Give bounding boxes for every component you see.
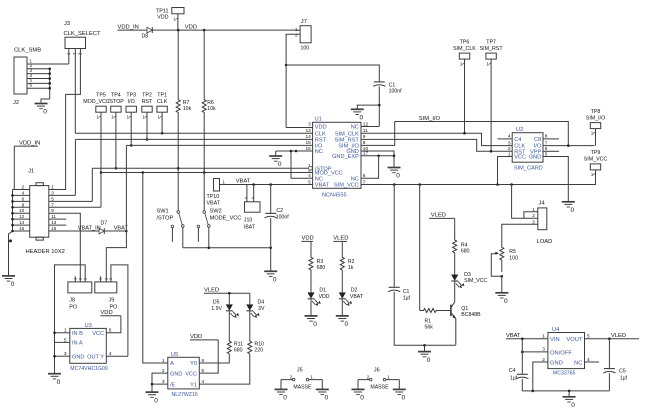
wire U4 GND drop (533, 362, 548, 391)
junction dot R7 on /STOP (177, 167, 180, 170)
wire J8 pin3 loop to U3 (55, 265, 86, 373)
wire U4 NC stub (585, 361, 600, 363)
svg-text:HEADER 10X2: HEADER 10X2 (26, 249, 65, 255)
svg-text:11: 11 (51, 214, 56, 219)
svg-text:CLK: CLK (315, 131, 326, 137)
svg-text:2: 2 (532, 213, 535, 218)
svg-text:J9: J9 (109, 297, 115, 303)
svg-text:0: 0 (396, 173, 400, 180)
wire SIM_CLK link (361, 133, 512, 145)
svg-text:TP7: TP7 (486, 39, 496, 45)
junction dot U5 gnd tie (151, 383, 154, 386)
wire U5 Y0 to R11 (199, 354, 229, 363)
svg-text:0: 0 (402, 395, 406, 402)
wire J2 pins 2-6 to junction bus (27, 69, 50, 103)
wire TP9 drop (591, 170, 596, 185)
svg-text:TP10: TP10 (207, 194, 220, 200)
svg-text:VLED: VLED (333, 236, 348, 242)
svg-text:GND: GND (529, 155, 541, 161)
connector J7 (295, 19, 311, 52)
capacitor C7 (C1 1uf) (388, 185, 411, 302)
svg-text:SIM_VCC: SIM_VCC (584, 157, 608, 163)
svg-text:SIM_VCC: SIM_VCC (334, 183, 359, 189)
svg-text:1: 1 (51, 185, 54, 190)
svg-text:SIM_CLK: SIM_CLK (335, 131, 359, 137)
svg-text:14: 14 (19, 220, 25, 225)
svg-text:0: 0 (345, 321, 349, 328)
svg-text:5: 5 (51, 196, 54, 201)
svg-text:TP1: TP1 (157, 93, 167, 99)
net label VDD U5 (190, 334, 218, 340)
svg-text:NC: NC (574, 360, 582, 366)
svg-text:VBAT: VBAT (207, 200, 221, 206)
ground below U4 (563, 397, 576, 409)
junction dot SIM_VCC U2VCC (496, 183, 499, 186)
transistor Q1 BC848B (451, 305, 481, 345)
svg-text:1: 1 (162, 358, 165, 364)
wire VDD to R3 (310, 241, 312, 256)
svg-text:VIN: VIN (550, 337, 560, 343)
testpoint TP8 SIM_I/O (586, 109, 605, 129)
svg-text:J2: J2 (13, 100, 19, 106)
wire TP8 drop (591, 129, 596, 146)
ground below D1 (305, 316, 318, 328)
svg-text:3: 3 (532, 219, 535, 224)
wire U3 INA stub (55, 341, 70, 343)
svg-text:IN B: IN B (72, 331, 83, 337)
wire TP5 drop (96, 112, 101, 172)
junction dot VBAT tie (125, 230, 128, 233)
junction dot TP2 on RST (146, 138, 149, 141)
wire U5 A riser (143, 173, 168, 364)
junction blob J1 gnd (9, 239, 12, 242)
wire J8 pin1 stub (74, 276, 76, 282)
svg-text:100: 100 (301, 46, 310, 52)
net label VDD leds (302, 236, 314, 242)
wire U2 pin4 stub (498, 138, 513, 140)
LED D5 1.9V (211, 299, 239, 317)
svg-text:13: 13 (305, 128, 311, 134)
wire TP1 drop (158, 112, 163, 133)
svg-text:TP6: TP6 (460, 39, 470, 45)
switch SW2 MODE_VCC (197, 168, 241, 248)
svg-text:100nf: 100nf (389, 89, 403, 95)
junction dot TP3 on I/O (130, 144, 133, 147)
junction dot SW2 bus (208, 247, 211, 250)
net label VBAT left (114, 226, 129, 232)
svg-text:0: 0 (504, 298, 508, 305)
svg-text:D8: D8 (142, 34, 149, 40)
svg-text:U4: U4 (552, 327, 560, 333)
junction dot TP6 on SIM_CLK (463, 132, 466, 135)
wire U1 pin8 SIM_I/O riser (361, 122, 395, 146)
wire J1 left tie (11, 190, 14, 233)
svg-text:IN A: IN A (72, 341, 83, 347)
net label VDD rail (185, 24, 197, 30)
svg-text:VBAT: VBAT (236, 179, 251, 185)
wire U3 INB stub (55, 332, 70, 334)
wire J7 pin2 loop to VDD node (286, 34, 300, 127)
connector J8 PO (68, 277, 92, 310)
wire U1 pin10 GND to ground (361, 151, 394, 167)
svg-text:TP11: TP11 (156, 8, 168, 14)
wire J1 left to ground (9, 231, 13, 275)
junction dot gnd rail (423, 344, 426, 347)
junction dot SIM_VCC J4 (510, 183, 513, 186)
svg-text:3: 3 (308, 121, 311, 127)
svg-text:ON/OFF: ON/OFF (550, 350, 572, 356)
svg-text:16: 16 (19, 226, 25, 231)
svg-text:10k: 10k (207, 106, 216, 112)
wire SIM_RST link (361, 139, 512, 151)
svg-text:NC: NC (315, 149, 323, 155)
junction dots J2 pins (48, 68, 51, 90)
wire U2 pin6 stub (543, 150, 559, 152)
svg-text:GND: GND (72, 355, 84, 361)
wire U4 gnd stub (568, 391, 570, 396)
LED D3 SIM_VCC (451, 272, 487, 288)
connector J9 PO (95, 277, 117, 310)
svg-text:0: 0 (278, 161, 282, 168)
resistor R7 10k (176, 30, 191, 168)
wire RST bus (75, 139, 312, 195)
svg-text:1: 1 (310, 375, 313, 380)
svg-text:U5: U5 (171, 352, 178, 358)
svg-text:6: 6 (22, 196, 25, 201)
svg-text:D1: D1 (319, 287, 326, 293)
svg-text:SW1: SW1 (157, 208, 169, 214)
junction dots NC tie (290, 150, 298, 153)
wire I/O descender to J9 pin2 (106, 145, 126, 282)
svg-text:J6: J6 (374, 367, 380, 373)
svg-text:I/O: I/O (128, 99, 135, 105)
svg-text:0: 0 (313, 321, 317, 328)
wire D4 to R10 (249, 311, 251, 341)
svg-text:LOAD: LOAD (537, 239, 553, 245)
wire C4 bottom (521, 379, 523, 391)
connector J3 CLK_SELECT (64, 21, 102, 55)
svg-text:MC33765: MC33765 (553, 371, 576, 377)
wire C2 to ground (270, 218, 272, 271)
capacitor C4 1uf (509, 339, 529, 382)
junction dot GND_EXP a (377, 155, 380, 158)
wire J9 pin1 stub (100, 276, 102, 282)
svg-text:GND: GND (550, 360, 563, 366)
resistor R5 100 rheostat (500, 242, 518, 272)
testpoint TP9 SIM_VCC (584, 150, 608, 170)
svg-text:1µf: 1µf (510, 375, 518, 381)
LED D2 VBAT (339, 287, 364, 305)
ground below C2 (264, 271, 277, 283)
testpoint TP2 RST (142, 93, 153, 113)
svg-text:15: 15 (305, 140, 311, 146)
svg-text:R10: R10 (254, 341, 264, 347)
svg-text:VLED: VLED (431, 213, 446, 219)
connector J1 HEADER 10X2 (26, 168, 65, 255)
testpoint TP5 MOD_VCC (83, 93, 110, 113)
wire J1 pin15 VBAT_IN (49, 230, 99, 232)
wire J2 pin1 to J3 pin1 (27, 63, 69, 65)
ground below D2 (336, 316, 349, 328)
svg-text:VDD_IN: VDD_IN (118, 24, 139, 30)
diode D8 (142, 27, 153, 39)
svg-text:1k: 1k (348, 265, 354, 271)
svg-text:0: 0 (273, 277, 277, 284)
svg-text:C4: C4 (514, 137, 521, 143)
svg-text:IBAT: IBAT (244, 224, 256, 230)
wire R2 to D2 (341, 272, 343, 293)
junction dot TP7 on SIM_RST (490, 150, 493, 153)
op-amp U1 NCN4555 SIM interface (305, 117, 368, 199)
junction dot ON/OFF (521, 351, 524, 354)
svg-text:TP4: TP4 (111, 93, 121, 99)
svg-text:SIM_I/O: SIM_I/O (419, 116, 441, 122)
connector J4 LOAD (532, 201, 552, 246)
svg-text:CLK_SELECT: CLK_SELECT (64, 31, 102, 37)
svg-text:2: 2 (22, 185, 25, 190)
wire U3 GND stub (55, 355, 70, 357)
LED D4 3V (246, 299, 265, 317)
svg-text:100: 100 (509, 256, 518, 262)
net label VDD U3 (100, 310, 121, 316)
svg-text:TP9: TP9 (591, 150, 601, 156)
junction dot VBAT U4 (521, 337, 524, 340)
ground below J2 (35, 104, 48, 116)
svg-text:MODE_VCC: MODE_VCC (210, 215, 242, 221)
svg-text:Y0: Y0 (190, 361, 197, 367)
svg-text:100nf: 100nf (276, 214, 290, 220)
wire VLED to D4 (249, 293, 251, 304)
svg-text:OUT Y: OUT Y (87, 355, 104, 361)
resistor R2 1k (340, 256, 354, 272)
net label VLED mid (429, 213, 455, 219)
wire U2 pin5 GND down (543, 157, 568, 202)
svg-text:4: 4 (308, 173, 311, 179)
svg-text:J10: J10 (244, 217, 252, 223)
wire U4 ON/OFF (522, 351, 548, 353)
svg-text:C5: C5 (619, 368, 626, 374)
svg-text:TP5: TP5 (96, 93, 106, 99)
svg-text:VBAT: VBAT (506, 333, 521, 339)
svg-text:J5: J5 (297, 367, 303, 373)
ground below U5 (146, 392, 159, 404)
svg-text:VCC: VCC (92, 331, 104, 337)
connector J5 MASSE (275, 367, 329, 401)
svg-text:/E: /E (170, 382, 176, 388)
svg-text:1: 1 (387, 375, 390, 380)
wire D7 to VBAT label (104, 230, 126, 232)
svg-text:VDD_IN: VDD_IN (19, 140, 40, 146)
svg-text:NC: NC (315, 176, 323, 182)
ground at U2 pin5 (562, 202, 575, 214)
svg-text:/STOP: /STOP (157, 215, 174, 221)
svg-text:CLK_SMB: CLK_SMB (14, 48, 41, 54)
junction dot R6 on MOD_VCC (203, 171, 206, 174)
svg-text:J7: J7 (301, 19, 307, 25)
wire J1 pin13 stub (49, 224, 67, 226)
svg-text:3: 3 (51, 190, 54, 195)
svg-text:1µf: 1µf (620, 375, 628, 381)
svg-text:SIM_I/O: SIM_I/O (586, 115, 605, 121)
wire D5 to R11 (228, 311, 230, 341)
svg-text:0: 0 (360, 395, 364, 402)
svg-text:VDD: VDD (185, 24, 197, 30)
svg-text:MC74VHC1G09: MC74VHC1G09 (70, 366, 108, 372)
svg-text:D2: D2 (351, 287, 358, 293)
wire D1 to ground (310, 299, 312, 316)
op-amp U5 NL27WZ16 (162, 352, 205, 398)
svg-text:220: 220 (254, 348, 263, 354)
svg-text:R11: R11 (234, 341, 243, 347)
connector J10 IBAT (244, 197, 260, 230)
wire TP11 to rail (173, 14, 178, 30)
svg-text:RST: RST (142, 99, 153, 105)
svg-text:0: 0 (154, 397, 158, 404)
ground left of J1 (2, 276, 15, 288)
ground at U1 pin16 (269, 156, 282, 168)
junction dot J10 pin2 (252, 183, 255, 186)
ground mid (418, 352, 431, 364)
svg-text:1.9V: 1.9V (211, 306, 222, 312)
wire J3 pin3 to J1 pin1 riser (49, 49, 81, 190)
svg-text:U1: U1 (315, 117, 322, 123)
svg-text:TP3: TP3 (126, 93, 136, 99)
wire VDD rail (152, 29, 300, 31)
svg-text:CLK: CLK (157, 99, 168, 105)
svg-text:56k: 56k (425, 324, 434, 330)
wire SIM_VCC line (361, 184, 595, 186)
svg-text:0: 0 (427, 357, 431, 364)
svg-text:R5: R5 (509, 249, 516, 255)
junction dot U3 GND (53, 355, 56, 358)
svg-text:J3: J3 (64, 21, 70, 27)
svg-text:13: 13 (51, 220, 57, 225)
svg-text:J4: J4 (539, 201, 546, 207)
resistor R10 220 (248, 341, 264, 354)
svg-text:8: 8 (22, 202, 25, 207)
svg-text:VDD: VDD (319, 294, 330, 300)
wire J1 pin3 stub (49, 194, 76, 196)
svg-text:D5: D5 (213, 299, 220, 305)
wire J4 pin1 pin2 tie (512, 185, 538, 219)
svg-text:NC: NC (351, 125, 359, 131)
wire R5 to ground (501, 276, 503, 292)
junction dot VOUT C5 (608, 337, 611, 340)
wire TP2 drop (142, 112, 147, 139)
connector J2 CLK_SMB (13, 48, 41, 107)
capacitor C5 1uf (603, 339, 627, 382)
svg-text:5: 5 (308, 179, 311, 185)
testpoint TP7 SIM_RST (480, 39, 504, 59)
wire NC16 ground link (276, 151, 313, 155)
wire J3 pin2 down to CLK bus (74, 49, 76, 134)
svg-text:J8: J8 (69, 297, 75, 303)
junction dot C1 bottom (378, 104, 381, 107)
svg-text:0: 0 (325, 395, 329, 402)
junction dot R5 bottom (501, 275, 504, 278)
svg-text:GND_EXP: GND_EXP (332, 154, 359, 160)
diode D7 (99, 220, 107, 234)
svg-text:U2: U2 (516, 127, 523, 133)
svg-text:0: 0 (571, 402, 575, 409)
junction dot R6 rail (203, 29, 206, 32)
testpoint TP4 /STOP (108, 93, 124, 113)
capacitor C1 100nf (373, 82, 402, 95)
svg-text:7: 7 (51, 202, 54, 207)
svg-text:2: 2 (367, 375, 370, 380)
junction dot J7 loop (285, 64, 288, 67)
wire U1 pin6 NC riser (361, 156, 379, 179)
wire TP7 drop (487, 59, 492, 151)
wire node to C1 top (286, 65, 379, 81)
svg-text:VCC: VCC (514, 155, 526, 161)
wire D3 to Q1 collector (451, 281, 455, 307)
svg-text:NCN4555: NCN4555 (322, 193, 347, 199)
wire R1 riser (419, 185, 421, 311)
connector J6 MASSE (352, 367, 406, 401)
wire D2 to ground (341, 299, 343, 316)
svg-text:VDD: VDD (190, 334, 202, 340)
wire J1 pin5 riser (49, 200, 93, 202)
wire C5 bottom (608, 373, 610, 391)
svg-text:D3: D3 (464, 272, 471, 278)
svg-text:VDD: VDD (157, 15, 168, 21)
junction dot C2 top (269, 183, 272, 186)
junction dot TP5 on MOD_VCC (100, 171, 103, 174)
wire bottom bus SW (183, 247, 271, 249)
net label VDD_IN left (14, 140, 40, 189)
wire U1 pin17 GND_EXP (361, 155, 394, 157)
svg-text:1: 1 (542, 334, 545, 340)
svg-text:VDD: VDD (100, 310, 112, 316)
svg-text:PO: PO (69, 304, 77, 310)
svg-text:VBAT: VBAT (315, 183, 330, 189)
wire J3 pin1 down (68, 49, 70, 65)
wire /STOP bus (92, 168, 308, 201)
junction dot SIM_I/O on pin7 (567, 144, 570, 147)
svg-text:680: 680 (234, 348, 243, 354)
svg-text:U3: U3 (85, 323, 92, 329)
svg-text:MASSE: MASSE (293, 385, 312, 391)
junction dot VLED D5 (228, 292, 231, 295)
op-amp U2 SIM_CARD (508, 127, 548, 172)
junction dot GND_EXP b (393, 155, 396, 158)
resistor R1 56k (420, 309, 451, 331)
wire J9 pin3 loop to U3 OUTY (111, 265, 128, 356)
svg-text:15: 15 (51, 226, 57, 231)
wire TP4 drop (111, 112, 116, 168)
svg-text:D7: D7 (101, 220, 108, 226)
wire U3 VCC riser (106, 316, 121, 333)
wire U1 pin12 NC stub (361, 126, 379, 128)
svg-text:GND: GND (170, 371, 182, 377)
wire U4 VOUT VLED (585, 338, 640, 340)
wire VLED to D5 (228, 293, 230, 304)
LED D1 VDD (308, 287, 330, 305)
svg-text:SIM_CLK: SIM_CLK (453, 46, 476, 52)
svg-text:680: 680 (461, 249, 470, 255)
wire VLED to R4 (454, 218, 456, 238)
resistor R6 10k (202, 30, 216, 172)
wire J10 pin1 drop (246, 185, 248, 202)
ground below U3 (48, 374, 61, 386)
svg-text:VDD: VDD (302, 236, 314, 242)
svg-text:12: 12 (19, 214, 25, 219)
net label VLED leds (333, 236, 348, 242)
wire SIM_I/O line (395, 122, 569, 146)
svg-text:TP8: TP8 (591, 109, 601, 115)
wire R5 wiper loop (491, 252, 502, 277)
